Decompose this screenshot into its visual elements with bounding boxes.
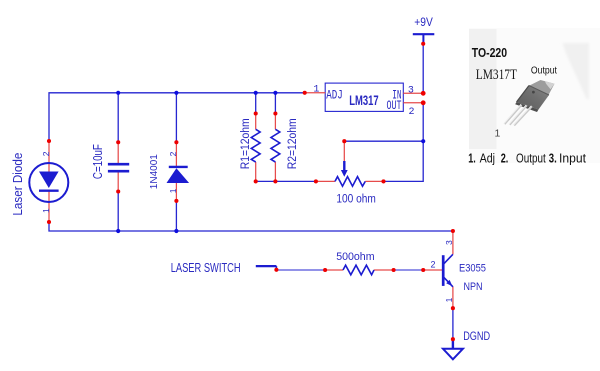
svg-text:DGND: DGND: [463, 330, 490, 343]
svg-text:Output: Output: [516, 152, 546, 166]
TO-220 package illustration background: [469, 28, 600, 163]
svg-text:2: 2: [41, 151, 51, 156]
LM317 pin IN wire: [403, 92, 423, 94]
wire: transistor emitter to DGND: [452, 308, 454, 339]
svg-text:2.: 2.: [501, 152, 509, 166]
svg-text:ADJ: ADJ: [326, 89, 342, 103]
laser diode LD symbol: [29, 163, 68, 202]
potentiometer zigzag 100 ohm: [335, 177, 365, 187]
svg-text:LM317T: LM317T: [476, 66, 517, 83]
svg-text:100 ohm: 100 ohm: [336, 193, 375, 206]
svg-text:C=10uF: C=10uF: [92, 144, 105, 179]
power label +9V: [414, 16, 433, 29]
svg-text:1: 1: [41, 208, 51, 213]
laser diode LD pin stubs: [48, 141, 50, 222]
wire: diode bottom stub: [175, 201, 177, 231]
TO-220 label Output: [531, 65, 557, 76]
transistor Q1 symbol: [443, 254, 453, 286]
svg-text:+9V: +9V: [414, 16, 433, 29]
wire: top rail from laser diode to LM317 ADJ: [49, 93, 305, 141]
capacitor C pin stubs: [117, 142, 119, 191]
TO-220 pin description text: [468, 150, 586, 166]
resistor R3 500ohm zigzag: [343, 265, 374, 275]
diode label "1N4001": [149, 154, 160, 189]
wire: switch to 500ohm resistor: [276, 269, 325, 271]
LM317 U1 box: [325, 83, 403, 111]
power +9V symbol: [413, 34, 435, 44]
resistor R1 label "R1=12ohm": [239, 118, 252, 169]
resistor R1 pin stubs: [255, 114, 257, 182]
LM317 pin number 1: [313, 85, 319, 96]
svg-text:2: 2: [408, 107, 414, 118]
svg-text:1: 1: [495, 128, 501, 140]
svg-text:1: 1: [313, 85, 319, 96]
ground label DGND: [463, 330, 490, 343]
switch SW lever: [256, 266, 277, 270]
svg-text:500ohm: 500ohm: [336, 251, 374, 263]
svg-text:LM317: LM317: [349, 93, 378, 108]
laser diode pin number 2: [41, 151, 51, 156]
transistor pin number 1: [444, 297, 454, 302]
wire: LM317 OUT down to pot right terminal: [384, 103, 424, 182]
svg-text:NPN: NPN: [464, 281, 483, 293]
svg-text:Adj: Adj: [480, 150, 495, 165]
resistor R3 500ohm pin stubs: [325, 269, 394, 271]
svg-text:1N4001: 1N4001: [149, 154, 160, 189]
pin end dots (red): [47, 42, 455, 342]
wire: +9V to LM317 IN: [422, 44, 424, 94]
LM317 pin OUT wire: [403, 102, 423, 104]
svg-text:2: 2: [168, 151, 178, 156]
svg-text:R1=12ohm: R1=12ohm: [239, 118, 252, 169]
wire: pot wiper to OUT vertical: [344, 140, 423, 142]
switch label "LASER SWITCH": [171, 262, 241, 276]
resistor R2 zigzag: [271, 129, 280, 162]
resistor R2 label "R2=12ohm": [287, 118, 300, 169]
transistor pin number 2: [430, 259, 435, 269]
svg-text:Input: Input: [559, 151, 586, 165]
svg-text:1: 1: [168, 188, 178, 193]
resistor R3 label "500ohm": [336, 251, 374, 263]
resistor R1 zigzag: [251, 129, 260, 162]
diode D1 1N4001 symbol: [167, 167, 190, 183]
laser diode pin number 1: [41, 208, 51, 213]
svg-text:OUT: OUT: [387, 100, 402, 114]
LM317 pin number 2: [408, 107, 414, 118]
LM317 pin number 3: [408, 85, 414, 96]
svg-text:Laser Diode: Laser Diode: [11, 152, 25, 215]
potentiometer wiper arrow: [341, 161, 348, 177]
svg-text:Output: Output: [531, 65, 557, 76]
svg-text:1: 1: [444, 297, 454, 302]
potentiometer pin stubs: [316, 141, 384, 181]
capacitor C plates: [108, 164, 129, 171]
transistor Q1 pin stubs: [423, 231, 453, 308]
laser diode label "Laser Diode": [11, 152, 25, 215]
wire: 500ohm resistor to transistor base: [394, 269, 424, 271]
wire: bottom rail laser diode to transistor collector: [49, 222, 453, 231]
svg-text:3: 3: [408, 85, 414, 96]
TO-220 title text: [472, 47, 507, 60]
transistor label NPN: [464, 281, 483, 293]
wire: diode top stub: [175, 93, 177, 143]
svg-text:LASER SWITCH: LASER SWITCH: [171, 262, 241, 276]
svg-text:3: 3: [444, 240, 454, 245]
svg-text:2: 2: [430, 259, 435, 269]
TO-220 label LM317T: [476, 66, 517, 83]
wire: R1 top stub: [255, 93, 257, 114]
LM317 label IN: [392, 89, 401, 104]
svg-text:1.: 1.: [468, 152, 475, 166]
LM317 pin ADJ wire: [305, 92, 326, 94]
diode pin number 1: [168, 188, 178, 193]
wire: capacitor bottom stub: [117, 192, 119, 232]
TO-220 package drawing: [504, 80, 555, 125]
TO-220 pin 1 label: [495, 128, 501, 140]
junction node dots (blue): [116, 91, 425, 233]
resistor R2 pin stubs: [274, 114, 276, 182]
transistor label E3055: [459, 263, 486, 275]
svg-text:E3055: E3055: [459, 263, 486, 275]
wire: capacitor top stub: [117, 93, 119, 143]
diode D1 pin stubs: [175, 142, 177, 201]
ground DGND symbol: [443, 339, 463, 359]
svg-text:TO-220: TO-220: [472, 47, 507, 60]
LM317 part name: [349, 93, 378, 108]
svg-text:R2=12ohm: R2=12ohm: [287, 118, 300, 169]
transistor pin number 3: [444, 240, 454, 245]
wire: R1/R2 bottoms to potentiometer left: [256, 180, 316, 182]
wire: R2 top stub: [274, 93, 276, 114]
diode pin number 2: [168, 151, 178, 156]
svg-text:3.: 3.: [549, 152, 557, 166]
capacitor label "C=10uF": [92, 144, 105, 179]
LM317 label ADJ: [326, 89, 342, 103]
potentiometer label "100 ohm": [336, 193, 375, 206]
LM317 label OUT: [387, 100, 402, 114]
